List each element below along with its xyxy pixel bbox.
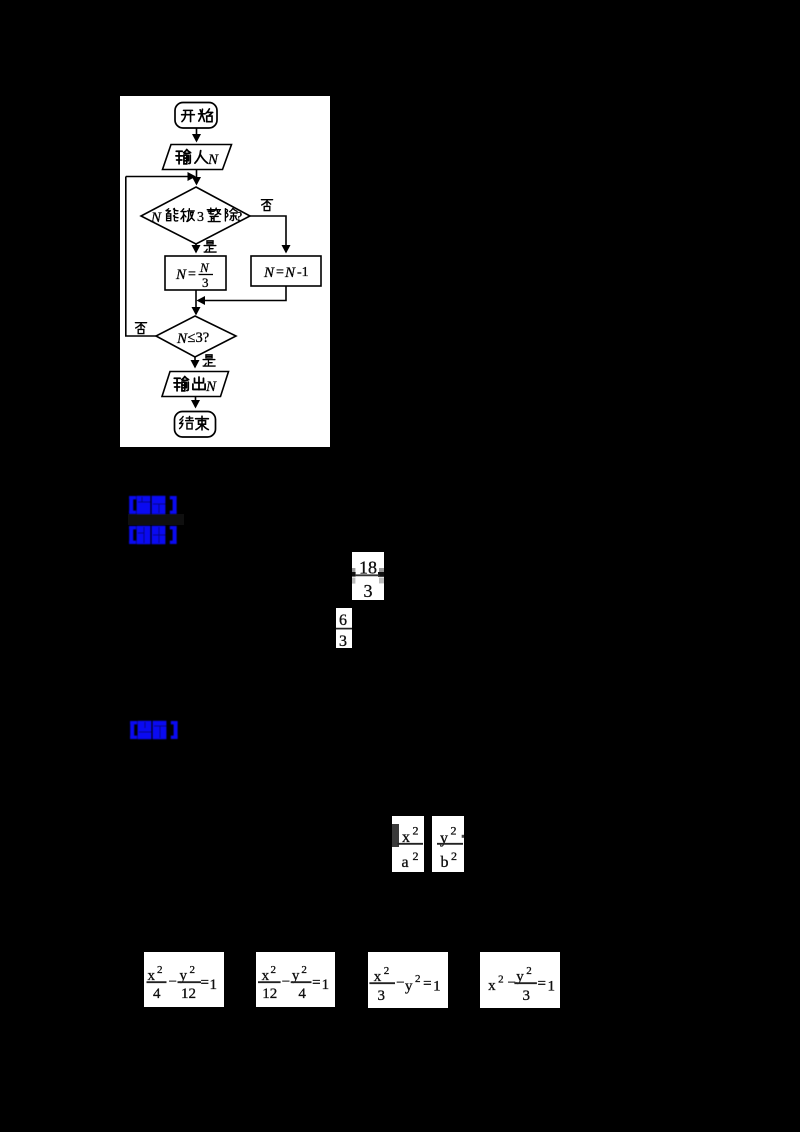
svg-text:4: 4 [153,986,161,1002]
wire loopback joins junction [125,176,194,178]
inline equation image y^2/b^2 [432,816,464,872]
svg-text:2: 2 [157,964,163,976]
svg-text:1: 1 [433,979,441,995]
figure: flowchart image (white panel) [120,96,330,447]
svg-text:2: 2 [498,974,504,986]
svg-text:=: = [276,265,284,280]
svg-text:2: 2 [301,964,307,976]
svg-text:−: − [396,975,404,991]
svg-text:≤3?: ≤3? [187,330,209,346]
label 是 [204,241,216,252]
svg-text:=: = [538,976,546,992]
option A equation image x^2/4 - y^2/12 = 1 [144,952,224,1007]
decision N≤3? [156,316,236,357]
svg-text:−: − [169,974,177,990]
svg-text:3: 3 [523,988,531,1004]
svg-text:2: 2 [271,964,277,976]
svg-text:x: x [488,978,496,994]
svg-text:N: N [207,152,219,168]
svg-text:3: 3 [202,275,209,290]
svg-text:3: 3 [364,581,373,600]
inline equation image x^2/a^2 [392,816,424,872]
svg-text:3: 3 [197,210,204,225]
wire N=N-1 -> merge [198,286,286,301]
label 是 [203,355,215,366]
blue header 【答案】 [128,495,180,515]
svg-text:12: 12 [262,986,277,1002]
label 否 (left) [135,323,146,334]
io 输入N [162,145,231,170]
svg-text:N: N [263,265,275,281]
wire N=N/3 -> decision2 [195,290,197,314]
svg-text:N: N [150,210,162,226]
terminal 结束 [174,412,215,438]
svg-text:2: 2 [451,849,457,863]
process N=N/3 [165,256,226,290]
svg-text:N: N [205,379,217,395]
svg-text:4: 4 [298,986,306,1002]
svg-text:=: = [423,976,431,992]
inline equation image 18/3 [352,552,384,600]
svg-text:3: 3 [378,988,386,1004]
svg-text:-1: -1 [297,265,309,280]
faint residue band [128,514,184,525]
svg-text:2: 2 [413,824,419,838]
svg-text:?: ? [236,210,242,225]
wire start->input [195,128,197,141]
svg-text:=: = [188,267,196,282]
svg-text:=: = [312,975,320,991]
wire decision1->N=N/3 [195,244,197,252]
svg-text:2: 2 [384,965,390,977]
svg-text:6: 6 [339,612,347,629]
wire decision2->output [194,357,196,367]
svg-text:N: N [199,260,210,275]
label 否 [261,200,272,211]
io 输出N [162,372,229,397]
wire output->end [194,397,196,407]
wire decision1->N=N-1 [250,216,286,252]
svg-text:b: b [441,854,449,871]
svg-text:=: = [201,975,209,991]
svg-text:N: N [284,265,296,281]
svg-text:1: 1 [322,977,330,993]
svg-text:2: 2 [413,849,419,863]
option B equation image x^2/12 - y^2/4 = 1 [256,952,335,1007]
svg-text:12: 12 [181,986,196,1002]
wire input->decision1 with junction [195,170,197,185]
blue header 【点睛】 [129,720,181,740]
decision N能被3整除? [141,187,250,244]
svg-text:3: 3 [339,633,347,648]
svg-text:2: 2 [415,973,421,985]
process N=N-1 [251,256,321,286]
option D equation image x^2 - y^2/3 = 1 [480,952,560,1008]
blue header 【解析】 [128,525,180,545]
svg-text:N: N [175,267,187,283]
svg-text:a: a [402,854,409,871]
svg-text:1: 1 [210,977,218,993]
svg-text:2: 2 [526,965,532,977]
option C equation image x^2/3 - y^2 = 1 [368,952,448,1008]
inline equation image 6/3 [336,608,352,648]
svg-text:2: 2 [190,964,196,976]
svg-text:2: 2 [451,824,457,838]
svg-text:y: y [405,979,413,995]
svg-text:−: − [282,974,290,990]
svg-text:1: 1 [548,979,556,995]
wire decision2 loopback [125,177,155,337]
terminal 开始 [175,103,217,129]
svg-text:N: N [176,331,188,347]
glyph definitions (hand-drawn CJK strokes) [0,0,5,5]
